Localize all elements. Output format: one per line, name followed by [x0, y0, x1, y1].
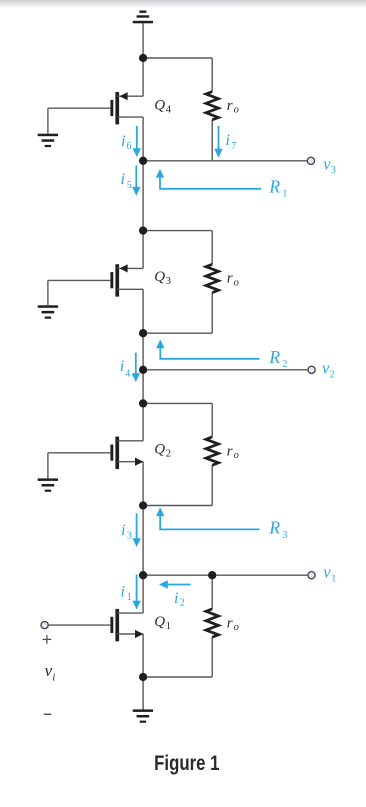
svg-text:o: o [234, 450, 239, 461]
svg-text:R: R [268, 347, 280, 367]
svg-text:r: r [227, 98, 233, 114]
svg-text:R: R [268, 518, 280, 538]
svg-text:5: 5 [127, 180, 132, 191]
svg-text:R: R [268, 176, 280, 196]
svg-text:1: 1 [282, 189, 287, 200]
svg-text:4: 4 [166, 105, 172, 116]
svg-text:1: 1 [166, 621, 171, 632]
svg-text:3: 3 [127, 531, 132, 542]
svg-text:6: 6 [127, 141, 132, 152]
svg-text:r: r [227, 616, 233, 632]
svg-text:2: 2 [166, 449, 171, 460]
svg-text:3: 3 [166, 276, 171, 287]
svg-text:1: 1 [127, 592, 132, 603]
svg-text:i: i [121, 171, 125, 188]
svg-text:Q: Q [154, 97, 165, 113]
svg-text:i: i [174, 590, 178, 607]
svg-text:3: 3 [331, 165, 336, 176]
svg-text:2: 2 [180, 597, 185, 608]
svg-text:o: o [234, 277, 239, 288]
svg-text:o: o [234, 105, 239, 116]
svg-text:o: o [234, 622, 239, 633]
svg-text:7: 7 [231, 141, 236, 152]
svg-text:r: r [227, 271, 233, 287]
svg-text:Q: Q [154, 269, 165, 285]
svg-text:i: i [121, 133, 125, 150]
svg-text:i: i [121, 583, 125, 600]
svg-text:i: i [52, 672, 55, 684]
svg-text:r: r [227, 443, 233, 459]
svg-text:2: 2 [282, 359, 287, 370]
svg-text:i: i [121, 522, 125, 539]
svg-text:i: i [226, 132, 230, 149]
svg-text:1: 1 [331, 574, 336, 585]
svg-text:Q: Q [154, 614, 165, 630]
svg-text:v: v [323, 562, 331, 581]
svg-text:i: i [120, 358, 124, 375]
svg-text:2: 2 [330, 370, 335, 381]
svg-text:3: 3 [282, 530, 287, 541]
svg-text:Q: Q [154, 442, 165, 458]
svg-text:4: 4 [125, 369, 130, 380]
